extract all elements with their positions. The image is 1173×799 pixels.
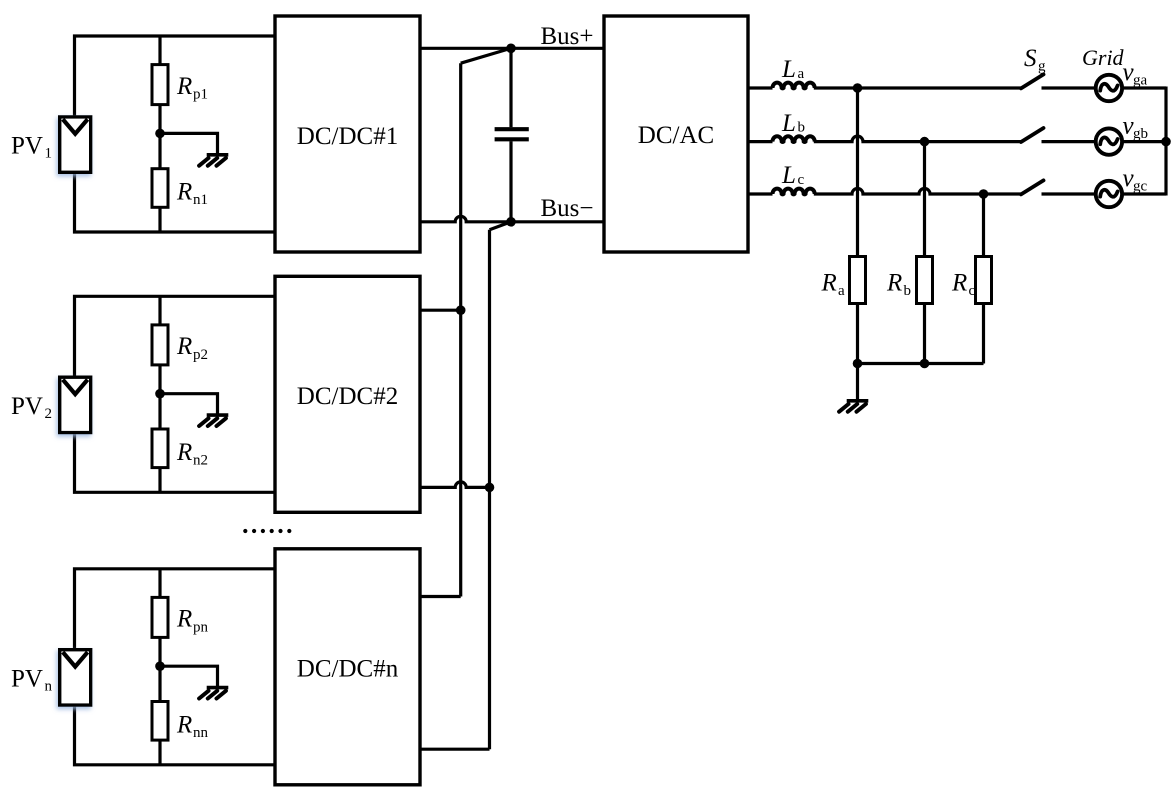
inverter box DC/AC <box>604 16 748 252</box>
source v_ga circle <box>1096 75 1122 101</box>
wire phase b tap down to R_b <box>923 142 926 257</box>
svg-text:R: R <box>176 711 192 738</box>
svg-text:R: R <box>821 269 837 296</box>
svg-text:p2: p2 <box>193 347 208 363</box>
node phase a tap <box>853 83 863 93</box>
PVn chevron <box>63 652 88 667</box>
node midpoint PVn divider <box>155 661 165 671</box>
svg-text:DC/DC#2: DC/DC#2 <box>297 383 398 410</box>
wire diagonal Bus- to string bus 2 <box>490 222 512 230</box>
wire phase a tap down to R_a <box>856 88 859 257</box>
resistor R_n1 <box>152 169 168 208</box>
wire diagonal Bus+ to string bus 1 <box>461 48 511 63</box>
wire phase a from inductor to switch <box>814 86 1021 89</box>
svg-text:R: R <box>176 606 192 633</box>
resistor R_a <box>850 257 866 304</box>
source v_gc circle <box>1096 181 1122 207</box>
wire DC/DC#n minus output <box>420 748 490 751</box>
PV1 chevron <box>63 119 88 134</box>
node midpoint PV1 divider <box>155 129 165 139</box>
resistor R_p1 <box>152 65 168 105</box>
resistor R_c <box>976 257 992 304</box>
wire R_p2 to node <box>158 365 161 429</box>
wire resistor branch upper R_pn <box>158 569 161 598</box>
wire R_n2 to bottom <box>158 468 161 493</box>
inductor L_a <box>773 83 815 89</box>
svg-text:R: R <box>951 269 967 296</box>
svg-text:1: 1 <box>45 146 53 162</box>
wire DC/DC#2 minus output with hop <box>420 482 490 487</box>
svg-text:PV: PV <box>11 665 43 692</box>
svg-text:R: R <box>886 269 902 296</box>
svg-text:ga: ga <box>1133 73 1148 89</box>
ground unit 2 <box>207 413 229 417</box>
wire node to ground unit 2 <box>160 394 218 415</box>
svg-text:n2: n2 <box>193 453 208 469</box>
ellipsis dots between DC/DC#2 and DC/DC#n <box>243 529 291 533</box>
wire PVn bottom loop <box>75 705 276 765</box>
wire PV2 bottom loop <box>75 433 276 493</box>
inductor L_c <box>773 189 815 195</box>
svg-text:gc: gc <box>1133 179 1148 195</box>
converter box DC/DC#1 <box>275 16 420 252</box>
wire DC/DC#n plus output <box>420 595 461 598</box>
PV source PVn <box>60 650 91 705</box>
svg-text:b: b <box>904 283 912 299</box>
inductor L_b <box>773 136 815 142</box>
svg-text:2: 2 <box>45 406 53 422</box>
node phase c tap <box>979 189 989 199</box>
ground unit n <box>207 686 229 690</box>
switch S_g phase b blade <box>1021 128 1044 142</box>
node Bus+ capacitor junction <box>506 44 516 54</box>
svg-text:gb: gb <box>1133 126 1148 142</box>
svg-text:pn: pn <box>193 619 209 635</box>
wire switch b to source v_gb <box>1042 140 1096 143</box>
wire resistor branch upper R_p1 <box>158 36 161 65</box>
svg-text:b: b <box>798 120 806 136</box>
source v_gb sine <box>1100 137 1117 144</box>
capacitor lower lead <box>509 141 512 222</box>
wire DC/AC output phase b to inductor <box>748 140 773 143</box>
wire R_n1 to bottom <box>158 207 161 232</box>
svg-text:n1: n1 <box>193 192 208 208</box>
wire Bus+ from DC/DC#1 to DC/AC <box>420 47 604 50</box>
svg-text:n: n <box>45 678 53 694</box>
svg-text:R: R <box>176 179 192 206</box>
converter box DC/DC#n <box>275 549 420 785</box>
PV source PV1 <box>60 117 91 172</box>
source v_gb circle <box>1096 128 1122 154</box>
converter box DC/DC#2 <box>275 276 420 512</box>
resistor R_nn <box>152 702 168 741</box>
ground unit 1 <box>207 153 229 157</box>
PV source PV2 <box>60 377 91 432</box>
wire switch a to source v_ga <box>1042 86 1096 89</box>
wire phase c tap down to R_c <box>982 194 985 257</box>
wire source v_ga to grid bus <box>1122 86 1166 89</box>
svg-text:S: S <box>1024 45 1037 72</box>
wire R_p1 to node <box>158 105 161 169</box>
wire Bus- from DC/DC#1 to DC/AC with hop <box>420 216 604 222</box>
svg-text:R: R <box>176 73 192 100</box>
node rail at R_a / ground <box>853 359 863 369</box>
resistor R_p2 <box>152 325 168 365</box>
resistor R_b <box>917 257 933 304</box>
resistor R_n2 <box>152 429 168 468</box>
svg-text:a: a <box>838 283 845 299</box>
wire node to ground unit n <box>160 666 218 687</box>
wire R_b to rail <box>923 304 926 364</box>
node midpoint PV2 divider <box>155 389 165 399</box>
svg-text:c: c <box>969 283 976 299</box>
wire source v_gb to grid bus <box>1122 140 1166 143</box>
wire DC/AC output phase a to inductor <box>748 86 773 89</box>
svg-text:R: R <box>176 439 192 466</box>
svg-text:p1: p1 <box>193 87 208 103</box>
wire PVn top loop <box>75 569 276 650</box>
wire phase b from inductor to switch <box>814 136 1021 142</box>
svg-text:a: a <box>798 66 805 82</box>
wire neutral rail <box>858 362 984 365</box>
svg-text:L: L <box>781 56 796 83</box>
node grid bus phase b <box>1161 137 1171 147</box>
svg-text:R: R <box>176 333 192 360</box>
wire PV1 bottom loop <box>75 172 276 232</box>
wire string bus 2 vertical <box>488 230 491 749</box>
wire DC/DC#2 plus output <box>420 309 461 312</box>
wire phase c from inductor to switch <box>814 189 1021 195</box>
svg-text:DC/DC#1: DC/DC#1 <box>297 123 398 150</box>
capacitor plates <box>495 127 529 131</box>
svg-text:g: g <box>1038 59 1046 75</box>
svg-text:L: L <box>781 162 796 189</box>
svg-text:c: c <box>798 172 805 188</box>
svg-text:Grid: Grid <box>1082 45 1125 70</box>
wire PV1 top loop <box>75 36 276 117</box>
wire string bus 1 vertical <box>459 63 462 596</box>
svg-text:DC/AC: DC/AC <box>638 122 714 149</box>
source v_gc sine <box>1100 190 1117 197</box>
node DC/DC#2 minus output on bus 2 <box>485 483 495 493</box>
wire grid bus vertical <box>1164 87 1167 196</box>
svg-text:PV: PV <box>11 133 43 160</box>
node rail at R_b <box>920 359 930 369</box>
PV2 chevron <box>63 380 88 395</box>
node Bus- capacitor junction <box>506 217 516 227</box>
switch S_g phase a blade <box>1021 74 1044 88</box>
wire DC/AC output phase c to inductor <box>748 192 773 195</box>
node DC/DC#2 plus output on bus 1 <box>456 305 466 315</box>
svg-text:Bus+: Bus+ <box>541 23 594 50</box>
wire switch c to source v_gc <box>1042 192 1096 195</box>
source v_ga sine <box>1100 84 1117 91</box>
wire R_c to rail <box>982 304 985 364</box>
wire rail to ground <box>856 364 859 400</box>
wire R_pn to node <box>158 637 161 701</box>
wire source v_gc to grid bus <box>1122 192 1166 195</box>
wire R_a to rail <box>856 304 859 364</box>
capacitor bus capacitor upper lead <box>509 48 512 127</box>
wire resistor branch upper R_p2 <box>158 296 161 325</box>
ground neutral <box>847 399 869 403</box>
node phase b tap <box>920 137 930 147</box>
svg-text:nn: nn <box>193 725 209 741</box>
svg-text:DC/DC#n: DC/DC#n <box>297 656 399 683</box>
wire PV2 top loop <box>75 296 276 377</box>
wire R_nn to bottom <box>158 740 161 765</box>
svg-text:Bus−: Bus− <box>541 195 594 222</box>
wire node to ground unit 1 <box>160 133 218 154</box>
switch S_g phase c blade <box>1021 180 1044 194</box>
resistor R_pn <box>152 597 168 637</box>
svg-text:L: L <box>781 110 796 137</box>
svg-text:PV: PV <box>11 393 43 420</box>
